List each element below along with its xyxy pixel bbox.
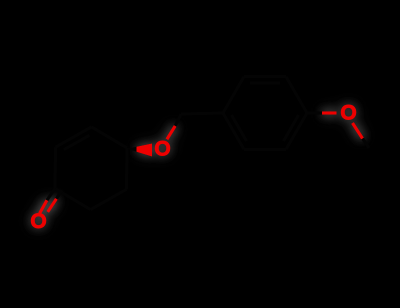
svg-text:O: O xyxy=(340,102,356,125)
svg-text:O: O xyxy=(30,210,46,233)
svg-text:O: O xyxy=(154,137,170,160)
